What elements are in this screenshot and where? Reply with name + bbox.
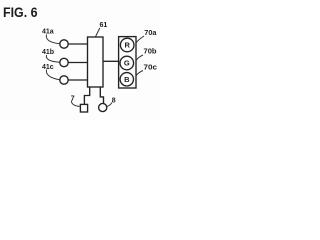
svg-text:70c: 70c [144, 63, 158, 72]
svg-text:70b: 70b [144, 47, 157, 56]
svg-text:R: R [124, 41, 130, 50]
svg-text:G: G [124, 59, 130, 68]
svg-text:41a: 41a [42, 29, 54, 36]
svg-text:41c: 41c [42, 64, 54, 71]
svg-text:FIG. 6: FIG. 6 [3, 4, 38, 20]
svg-text:7: 7 [71, 96, 75, 103]
svg-text:61: 61 [100, 22, 108, 29]
svg-text:8: 8 [112, 98, 116, 105]
svg-text:70a: 70a [144, 28, 157, 37]
svg-text:B: B [124, 75, 130, 84]
svg-text:41b: 41b [42, 49, 54, 56]
